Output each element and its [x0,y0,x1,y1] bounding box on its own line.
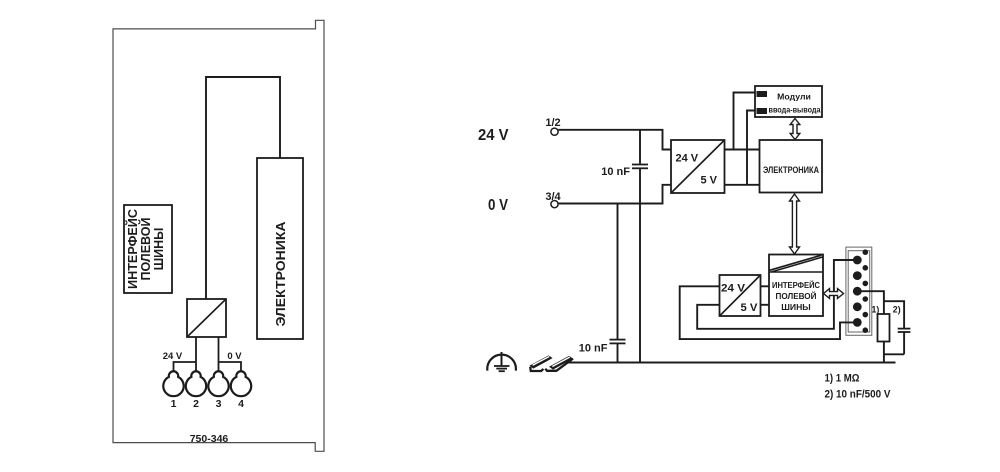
wire up to I/O modules pin 1 [734,93,757,150]
terminal 3 [208,371,228,396]
DC/DC converter U2 24V/5V [720,275,761,316]
terminal 2 [186,371,206,396]
electronics box (left module) [257,158,303,339]
wire branch to terminal 4 [219,362,242,372]
DC/DC converter U1 24V/5V [671,140,725,193]
svg-text:ИНТЕРФЕЙС: ИНТЕРФЕЙС [125,209,140,289]
svg-text:24 V: 24 V [478,127,509,144]
svg-text:1/2: 1/2 [545,117,560,129]
wire U1 5V output to electronics [725,184,760,186]
wire loop inner (U2 5V to connector pin 1) [697,260,853,329]
DIN rail symbol [529,355,573,371]
I/O modules box (Модули ввода-вывода) [755,86,822,117]
svg-text:1): 1) [872,305,880,315]
svg-text:0 V: 0 V [488,197,509,214]
svg-text:1: 1 [171,398,177,410]
wire DC/DC to terminal 3 [218,337,220,372]
earth rail [566,362,896,364]
DC/DC converter (left module) [187,299,226,337]
terminal 4 [231,371,251,396]
svg-text:ЭЛЕКТРОНИКА: ЭЛЕКТРОНИКА [763,165,819,175]
capacitor C2 10nF (0V to earth) [617,204,619,340]
svg-text:10 nF: 10 nF [601,166,630,178]
svg-text:0 V: 0 V [227,351,242,362]
wire loop outer (U2 24V to connector pin 5) [680,286,854,339]
svg-text:750-346: 750-346 [190,433,229,445]
svg-text:2): 2) [893,305,901,315]
svg-text:3: 3 [216,398,222,410]
svg-text:ИНТЕРФЕЙС: ИНТЕРФЕЙС [772,279,820,290]
svg-text:ввода-вывода: ввода-вывода [769,105,821,115]
wire from DC/DC up and over to electronics [206,77,280,299]
fieldbus interface box with isolation stripe [769,255,823,317]
electronics box (right diagram) [760,140,823,193]
svg-text:2) 10 nF/500 V: 2) 10 nF/500 V [825,389,892,401]
svg-text:24 V: 24 V [721,283,745,295]
svg-text:2: 2 [193,398,199,410]
data arrow interface-connector [824,289,844,299]
module outline 750-346 [113,20,324,451]
svg-text:24 V: 24 V [163,351,183,362]
terminal 1 [163,371,183,396]
wire branch to terminal 1 [174,362,197,372]
svg-text:ШИНЫ: ШИНЫ [781,302,810,312]
capacitor C1 10nF (24V to earth) [639,130,641,164]
svg-text:Модули: Модули [777,92,811,102]
svg-text:5 V: 5 V [741,302,758,314]
wire connector pin 3 to resistor/capacitor node [860,291,884,314]
wire U1 24V output to electronics [725,149,760,151]
fieldbus interface label box (left module) [124,205,172,293]
capacitor C3 10nF/500V [898,328,911,330]
resistor R1 1MOhm [878,314,890,342]
data arrow modules-electronics [790,119,800,140]
wire 24V rail [558,130,671,150]
svg-text:ПОЛЕВОЙ: ПОЛЕВОЙ [776,290,817,301]
svg-text:ЭЛЕКТРОНИКА: ЭЛЕКТРОНИКА [273,221,288,327]
svg-text:ПОЛЕВОЙ: ПОЛЕВОЙ [138,218,153,281]
wire U2 to interface upper [761,285,770,287]
svg-text:24 V: 24 V [676,153,699,165]
svg-text:ШИНЫ: ШИНЫ [152,228,166,271]
data arrow electronics-fieldbus interface [790,194,800,254]
svg-text:4: 4 [238,398,244,410]
wire DC/DC to terminal 2 [195,337,197,372]
wire up to I/O modules pin 2 [747,111,756,185]
connector pins (left column) [853,256,862,265]
wire U2 to interface lower [761,304,770,306]
earth symbol [487,352,516,371]
svg-text:5 V: 5 V [701,175,718,187]
svg-text:1) 1 MΩ: 1) 1 MΩ [825,373,860,385]
fieldbus connector block [846,247,872,335]
connector pins (right column) [863,249,869,255]
wire 0V rail [558,185,671,204]
svg-text:10 nF: 10 nF [579,343,608,355]
